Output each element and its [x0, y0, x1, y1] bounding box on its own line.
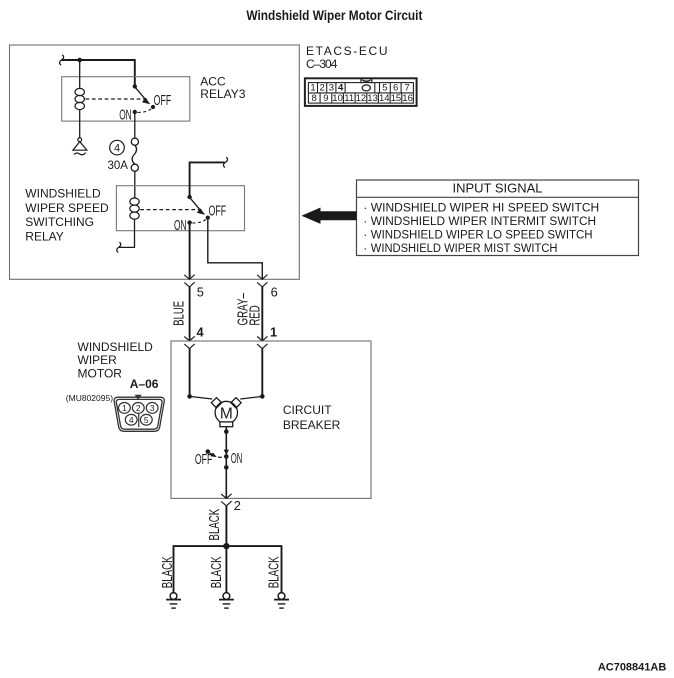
- svg-text:Windshield Wiper Motor Circuit: Windshield Wiper Motor Circuit: [246, 7, 422, 23]
- wire relay2 switch feed with break: [190, 162, 225, 197]
- wire pin4 into breaker: [189, 349, 191, 397]
- wire coil feed relay1: [79, 60, 81, 89]
- dashed link relay2: [140, 209, 201, 211]
- fuse number circle 4: [110, 140, 125, 155]
- svg-text:BREAKER: BREAKER: [283, 418, 341, 432]
- wire BLACK pin2 to junction: [225, 506, 227, 546]
- svg-text:(MU802095): (MU802095): [66, 393, 113, 403]
- contact OFF relay1: [151, 105, 155, 109]
- switch relay2 blade: [190, 197, 202, 211]
- svg-text:ETACS-ECU: ETACS-ECU: [306, 44, 388, 58]
- connector C-304 pin table: [305, 78, 417, 106]
- svg-text:BLACK: BLACK: [160, 556, 176, 588]
- svg-text:INPUT SIGNAL: INPUT SIGNAL: [452, 180, 542, 195]
- svg-text:9: 9: [323, 93, 328, 104]
- svg-text:BLACK: BLACK: [209, 556, 225, 588]
- svg-text:ON: ON: [119, 107, 132, 123]
- node junction on top feed: [77, 58, 82, 63]
- svg-text:SWITCHING: SWITCHING: [25, 215, 94, 229]
- outer box ETACS-ECU assembly: [10, 45, 300, 279]
- ground symbol left: [166, 593, 181, 609]
- wire break symbol relay2 feed: [223, 157, 227, 167]
- svg-text:5: 5: [144, 415, 149, 425]
- input signal arrow: [302, 208, 357, 224]
- svg-text:OFF: OFF: [154, 93, 172, 109]
- ground symbol middle: [219, 593, 234, 609]
- connector pin 1 chevrons: [257, 336, 267, 348]
- dashed return curve relay2: [192, 220, 206, 224]
- svg-text:RED: RED: [248, 305, 264, 325]
- connector latch mark: [361, 79, 373, 83]
- node breaker switch top: [224, 454, 229, 459]
- wire relay2 coil return with break: [119, 219, 135, 247]
- connector pin 5 chevrons: [184, 275, 194, 287]
- coil relay1: [75, 88, 84, 109]
- connector A-06 cavity numbers: [122, 403, 155, 425]
- svg-text:OFF: OFF: [195, 452, 212, 468]
- svg-text:11: 11: [344, 93, 354, 104]
- svg-text:WIPER SPEED: WIPER SPEED: [25, 201, 109, 215]
- wire relay2 ON to pin 5: [189, 223, 191, 279]
- svg-text:4: 4: [129, 415, 134, 425]
- wire breaker to pin 2: [225, 457, 227, 499]
- ground symbol right: [274, 593, 289, 609]
- coil relay2: [130, 198, 139, 219]
- connector pin numbers row 1: [310, 83, 409, 94]
- svg-text:6: 6: [271, 285, 278, 300]
- contact OFF breaker: [206, 449, 211, 454]
- svg-text:4: 4: [197, 324, 205, 339]
- svg-text:15: 15: [391, 93, 402, 104]
- breaker switch arrow on wire: [224, 450, 229, 455]
- node below motor: [224, 429, 229, 434]
- svg-text:1: 1: [122, 403, 127, 413]
- contact ON relay2: [187, 220, 191, 224]
- relay box WINDSHIELD WIPER SPEED SWITCHING RELAY: [116, 186, 244, 231]
- svg-text:12: 12: [356, 93, 367, 104]
- svg-text:1: 1: [310, 83, 315, 94]
- svg-text:5: 5: [382, 83, 387, 94]
- wire break symbol relay2 coil return: [117, 242, 121, 252]
- svg-text:BLUE: BLUE: [171, 301, 187, 326]
- INPUT SIGNAL box: [357, 180, 639, 256]
- wire relay1 switch to fuse: [134, 112, 136, 138]
- svg-text:WINDSHIELD WIPER MIST SWITCH: WINDSHIELD WIPER MIST SWITCH: [371, 241, 558, 255]
- svg-text:·: ·: [363, 241, 367, 255]
- wire GRAY-RED pin6 to pin1: [261, 287, 263, 341]
- switch relay2 common node: [187, 195, 191, 199]
- svg-text:30A: 30A: [108, 160, 129, 172]
- wire: top feed: [62, 60, 135, 86]
- breaker blade dash: [218, 456, 222, 458]
- svg-text:4: 4: [114, 143, 120, 155]
- dashed link relay1: [86, 98, 148, 100]
- wire pin1 into breaker: [261, 349, 263, 397]
- node motor right: [260, 394, 265, 399]
- svg-text:6: 6: [393, 83, 398, 94]
- svg-text:ON: ON: [174, 218, 187, 234]
- svg-text:BLACK: BLACK: [207, 509, 223, 541]
- dashed return curve relay1: [138, 109, 152, 113]
- connector pin numbers row 2: [312, 93, 413, 104]
- svg-text:·: ·: [363, 201, 367, 215]
- fuse F4 30A: [131, 138, 138, 171]
- node breaker switch bottom: [224, 465, 229, 470]
- svg-text:WINDSHIELD: WINDSHIELD: [25, 186, 101, 200]
- svg-text:OFF: OFF: [209, 203, 227, 219]
- node ground junction: [223, 543, 229, 549]
- svg-text:1: 1: [270, 324, 277, 339]
- contact ON relay1: [133, 110, 137, 114]
- svg-text:2: 2: [234, 498, 241, 513]
- relay box ACC RELAY3: [62, 77, 190, 121]
- connector pin 4 chevrons: [184, 336, 194, 348]
- svg-text:RELAY: RELAY: [25, 230, 63, 244]
- connector pin 2 chevrons: [221, 494, 231, 506]
- wire coil to ground relay1: [79, 110, 81, 138]
- connector A-06 drawing: [114, 397, 164, 431]
- svg-text:M: M: [220, 405, 233, 422]
- svg-text:WIPER: WIPER: [78, 353, 118, 367]
- svg-text:4: 4: [338, 83, 344, 94]
- wire motor to breaker switch: [225, 427, 227, 457]
- svg-text:WINDSHIELD WIPER LO SPEED SWIT: WINDSHIELD WIPER LO SPEED SWITCH: [371, 228, 593, 242]
- svg-text:·: ·: [363, 214, 367, 228]
- svg-text:AC708841AB: AC708841AB: [598, 661, 667, 673]
- wire fuse to relay2 coil: [134, 171, 136, 198]
- connector A-06 cavities: [119, 403, 159, 428]
- svg-text:7: 7: [405, 83, 410, 94]
- connector pin 6 chevrons: [257, 275, 267, 287]
- svg-text:3: 3: [329, 83, 334, 94]
- connector keyway oval: [362, 85, 370, 91]
- svg-text:10: 10: [332, 93, 343, 104]
- wire middle ground drop: [225, 546, 227, 593]
- svg-text:RELAY3: RELAY3: [200, 87, 245, 101]
- svg-text:3: 3: [150, 403, 155, 413]
- contact OFF relay2: [206, 216, 210, 220]
- wire node to motor right terminal: [240, 396, 262, 399]
- wire BLUE pin5 to pin4: [189, 287, 191, 341]
- svg-text:2: 2: [320, 83, 325, 94]
- svg-text:·: ·: [363, 228, 367, 242]
- svg-text:CIRCUIT: CIRCUIT: [283, 403, 332, 417]
- switch relay1 blade: [135, 87, 147, 101]
- svg-text:MOTOR: MOTOR: [78, 367, 123, 381]
- svg-text:BLACK: BLACK: [266, 556, 282, 588]
- breaker OFF blade arrow: [209, 453, 213, 456]
- connector A-06 latch: [135, 395, 142, 400]
- svg-text:8: 8: [312, 93, 317, 104]
- svg-text:WINDSHIELD WIPER INTERMIT SWIT: WINDSHIELD WIPER INTERMIT SWITCH: [371, 214, 596, 228]
- node motor left: [187, 394, 192, 399]
- svg-text:A–06: A–06: [130, 377, 159, 391]
- body ground symbol relay1 coil: [73, 138, 87, 155]
- wire node to motor left terminal: [190, 396, 213, 399]
- wire break symbol top-left: [60, 55, 64, 65]
- svg-text:13: 13: [367, 93, 378, 104]
- svg-text:2: 2: [136, 403, 141, 413]
- motor box CIRCUIT BREAKER: [171, 341, 371, 498]
- wire ground bus: [174, 546, 282, 593]
- svg-text:16: 16: [402, 93, 413, 104]
- svg-text:ON: ON: [231, 451, 243, 467]
- svg-text:14: 14: [379, 93, 390, 104]
- svg-text:C–304: C–304: [306, 57, 338, 71]
- wire relay2 OFF to pin 6: [208, 218, 262, 279]
- svg-text:WINDSHIELD WIPER HI SPEED SWIT: WINDSHIELD WIPER HI SPEED SWITCH: [371, 201, 599, 215]
- svg-text:5: 5: [197, 285, 204, 300]
- motor M1 windshield wiper motor: [211, 398, 241, 427]
- switch relay1 common node: [133, 84, 137, 88]
